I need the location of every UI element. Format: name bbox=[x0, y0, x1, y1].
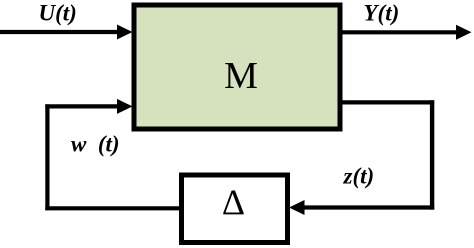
svg-text:w (t): w (t) bbox=[71, 132, 120, 157]
arrowhead Y output bbox=[456, 25, 472, 40]
svg-text:U(t): U(t) bbox=[39, 1, 77, 26]
svg-text:z(t): z(t) bbox=[343, 164, 375, 189]
arrowhead U input bbox=[117, 25, 133, 40]
block Delta bbox=[182, 175, 288, 243]
wire U(t) input bbox=[0, 30, 119, 34]
wire bottom-left to Delta bbox=[45, 206, 181, 210]
arrowhead w input bbox=[117, 99, 133, 114]
wire z(t) from M bbox=[342, 100, 434, 104]
svg-text:Y(t): Y(t) bbox=[364, 1, 400, 26]
wire w(t) horizontal into M bbox=[45, 104, 119, 108]
svg-text:Δ: Δ bbox=[222, 182, 245, 222]
wire Y(t) output bbox=[342, 30, 458, 34]
wire right vertical feedback bbox=[430, 100, 434, 209]
block M bbox=[134, 5, 340, 129]
wire bottom-right into Delta bbox=[304, 205, 434, 209]
svg-text:M: M bbox=[224, 55, 258, 97]
wire left vertical feedback bbox=[45, 104, 49, 210]
arrowhead into Delta bbox=[289, 200, 305, 215]
